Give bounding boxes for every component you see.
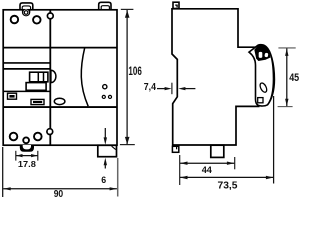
lever top dark cluster [254,45,270,61]
lever bottom square hole [258,98,263,103]
chamfer in notch [112,146,116,149]
svg-text:45: 45 [289,72,299,84]
small label box 2 [31,99,44,104]
DIN clip tab below bottom edge [20,145,34,152]
side body outline [172,9,260,145]
test button ellipse [54,98,65,104]
circle on divider bottom [47,129,53,135]
lever top white window 1 [259,52,263,58]
indicator circle [103,85,107,89]
lever inner edge curve [268,53,274,104]
svg-text:106: 106 [128,64,141,78]
device body outline [3,10,117,145]
mounting lug top-right [99,2,111,10]
svg-text:7,4: 7,4 [144,82,156,93]
horizontal line y=47.6 [3,47,117,49]
small circle a [102,95,105,98]
svg-text:44: 44 [202,165,213,175]
keyhole screw under left lug [22,9,30,16]
D knob on divider [51,70,56,82]
horizontal line y=107.2 [3,106,117,108]
terminal circle top 2 [33,16,41,24]
terminal circle bottom 2 [34,133,42,141]
svg-text:90: 90 [54,189,64,200]
DIN clip square bottom-left [172,146,178,152]
svg-text:17.8: 17.8 [18,159,36,169]
terminal circle top 1 [11,16,19,24]
small screw circle bottom middle [23,137,29,143]
lever oblong hole [259,82,268,93]
horizontal line y=68.9 left part [3,68,50,70]
toggle switch rect left part [30,72,48,82]
foot tab side view [211,145,224,157]
seam line left part y=91.4 [3,90,50,92]
small label box 1 [8,93,17,99]
bottom foot notch front view [98,145,117,156]
svg-text:73,5: 73,5 [218,181,238,192]
svg-text:6: 6 [101,175,106,185]
horizontal line y=62.9 left part [3,62,50,64]
mounting lug top-left [20,3,33,10]
DIN clip hook top [173,2,179,8]
wide rect below toggle [26,83,46,91]
toggle lever side view [249,45,274,106]
small circle on divider top [47,13,53,19]
divider vertical line [49,10,51,145]
lever top white window 2 [264,53,268,58]
small circle b [108,95,111,98]
toggle arc right part [81,48,88,107]
terminal circle bottom 1 [10,133,18,141]
